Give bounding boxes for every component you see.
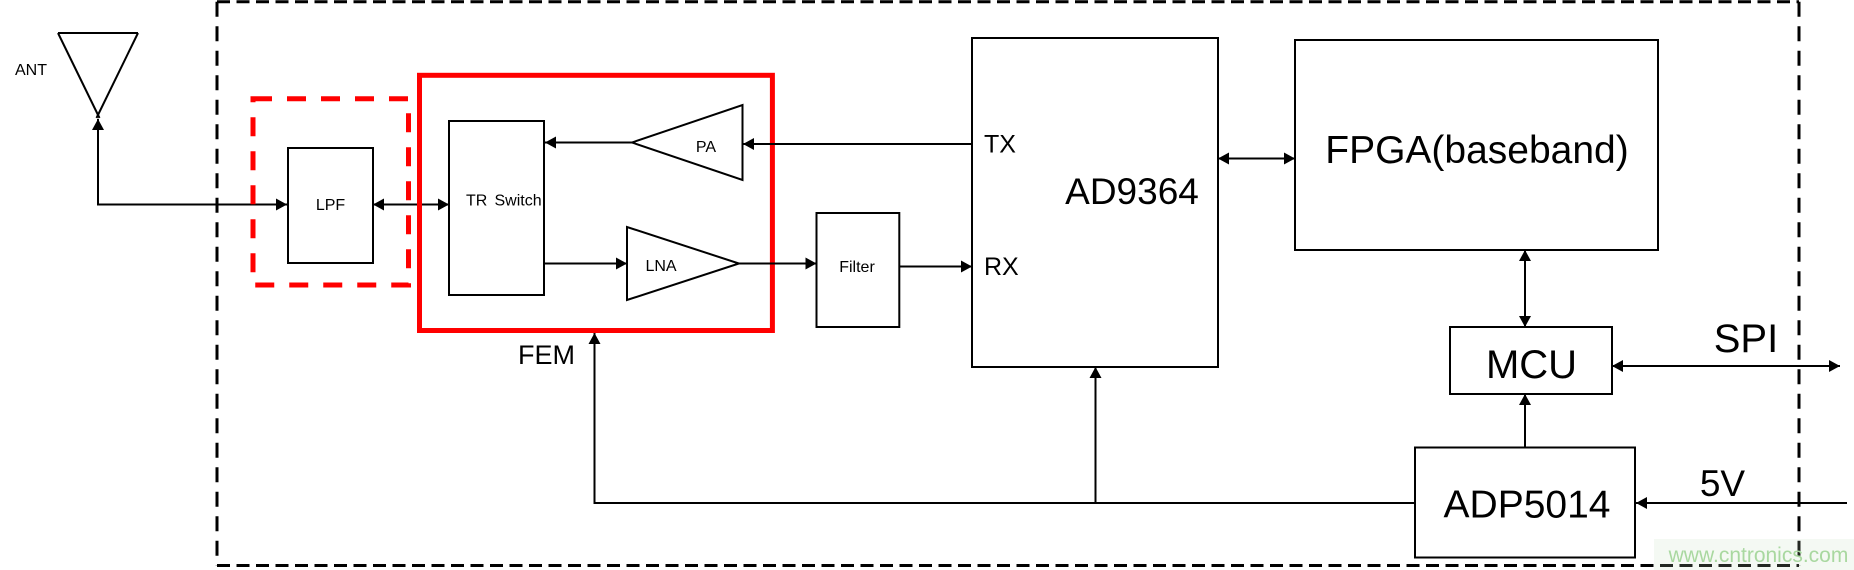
watermark panel [1654,539,1854,570]
wire power rail branch to AD9364 [1095,367,1097,503]
svg-text:ADP5014: ADP5014 [1444,484,1611,527]
wire LPF to TR Switch bidirectional [373,204,449,206]
wire MCU SPI bidirectional [1612,365,1840,367]
block TR Switch [449,121,544,295]
block AD9364 [972,38,1218,367]
wire PA to TR Switch [545,142,632,144]
block LPF [288,148,373,263]
block Filter [817,213,900,327]
amplifier PA [632,105,743,180]
wire FPGA to MCU bidirectional [1524,250,1526,327]
amplifier LNA [627,227,739,300]
wire TX AD9364 to PA [743,143,972,145]
block ADP5014 [1415,448,1635,558]
svg-text:FEM: FEM [518,340,575,370]
svg-text:TX: TX [984,131,1016,159]
svg-text:ANT: ANT [15,62,47,79]
svg-text:RX: RX [984,253,1019,281]
wire TR Switch to LNA [544,263,627,265]
svg-text:AD9364: AD9364 [1065,171,1199,212]
FEM red box [420,75,773,330]
svg-text:Filter: Filter [839,259,875,276]
block MCU [1450,327,1612,394]
svg-text:LPF: LPF [316,197,346,214]
wire power rail ADP5014 to FEM [595,333,1416,503]
svg-text:LNA: LNA [645,258,676,275]
wire LNA to Filter [739,263,817,265]
svg-text:PA: PA [696,139,716,156]
svg-text:MCU: MCU [1486,343,1577,387]
wire AD9364 to FPGA bidirectional [1218,158,1295,160]
svg-text:www.cntronics.com: www.cntronics.com [1668,544,1849,567]
wire antenna to LPF [98,119,287,205]
svg-text:5V: 5V [1700,463,1746,504]
block FPGA(baseband) [1295,40,1658,250]
outer dashed system boundary [217,0,1799,3]
wire ADP5014 to MCU [1524,394,1526,448]
svg-text:SPI: SPI [1714,317,1778,361]
svg-text:TRSwitch: TRSwitch [466,193,542,210]
antenna ANT [58,32,138,34]
svg-text:FPGA(baseband): FPGA(baseband) [1325,129,1629,172]
red dashed LPF section box [253,99,409,285]
wire 5V input [1636,502,1847,504]
wire Filter to AD9364 RX [899,266,972,268]
